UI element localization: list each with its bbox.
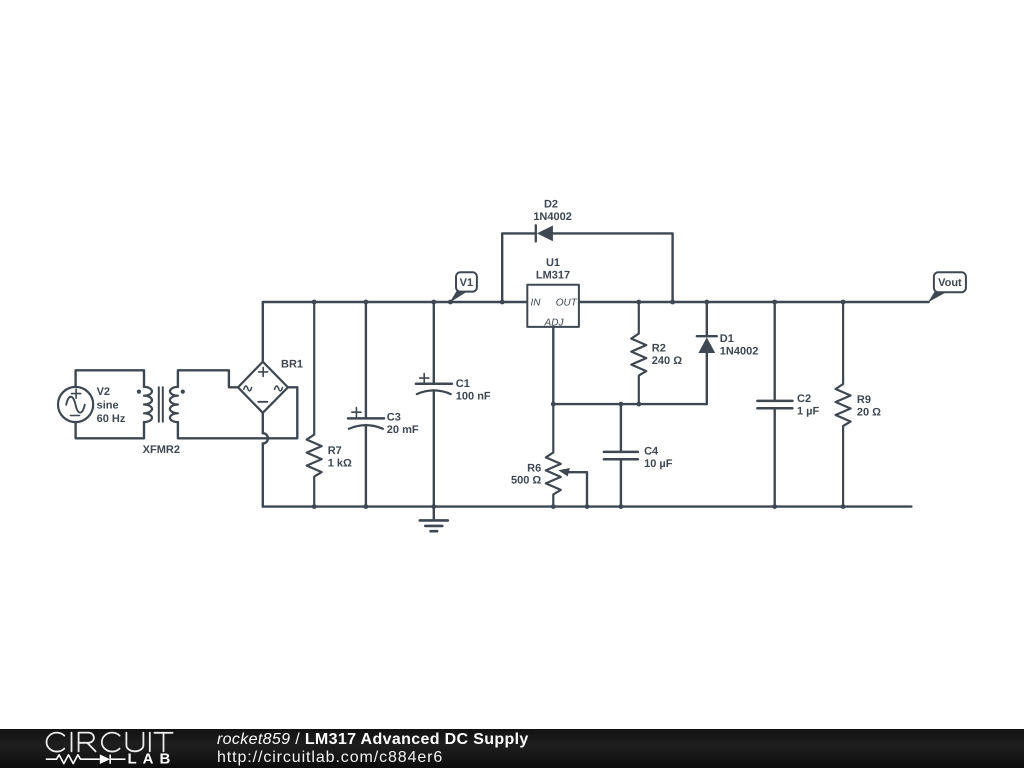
junction R9 top	[841, 300, 846, 305]
svg-text:IN: IN	[531, 298, 542, 309]
svg-text:R9: R9	[857, 394, 871, 406]
svg-text:C4: C4	[644, 446, 659, 458]
svg-text:BR1: BR1	[281, 359, 303, 371]
capacitor C3	[348, 302, 384, 507]
footer bar	[0, 729, 1024, 768]
svg-text:ADJ: ADJ	[544, 317, 565, 328]
svg-text:1N4002: 1N4002	[720, 346, 759, 358]
svg-text:LAB: LAB	[128, 751, 177, 768]
diode D2	[536, 225, 553, 241]
junction D2 right	[670, 300, 675, 305]
wire secondary bottom to BR1 right	[178, 387, 297, 438]
junction R9 bottom	[841, 504, 846, 509]
svg-text:1N4002: 1N4002	[533, 211, 572, 223]
capacitor C1	[416, 302, 452, 507]
svg-text:R6: R6	[527, 462, 541, 474]
svg-text:60 Hz: 60 Hz	[97, 413, 126, 425]
wire secondary top to BR1 left	[178, 370, 238, 387]
svg-text:100 nF: 100 nF	[456, 390, 491, 402]
svg-text:V2: V2	[97, 386, 110, 398]
footer url	[217, 749, 443, 767]
svg-text:U1: U1	[546, 257, 560, 269]
wire top rail left (BR1 top to U1 IN)	[263, 302, 528, 362]
svg-text:C3: C3	[387, 412, 401, 424]
junction C4 top	[619, 402, 624, 407]
junction ADJ node	[551, 402, 556, 407]
junction C2 top	[772, 300, 777, 305]
wire top rail right (U1 OUT to Vout)	[579, 301, 929, 303]
svg-text:10 µF: 10 µF	[644, 458, 673, 470]
diode D1	[697, 302, 717, 404]
svg-text:LM317: LM317	[536, 270, 570, 282]
resistor R2	[631, 302, 646, 404]
resistor R7	[307, 302, 322, 507]
junction R6 wiper bottom	[585, 504, 590, 509]
voltage source V2	[58, 387, 93, 422]
svg-text:XFMR2: XFMR2	[143, 444, 180, 456]
footer title	[217, 731, 529, 749]
svg-text:R2: R2	[652, 343, 666, 355]
ground	[420, 507, 448, 532]
resistor R9	[836, 302, 851, 507]
junction D1 top	[704, 300, 709, 305]
wire ADJ pin	[552, 327, 554, 404]
svg-text:R7: R7	[328, 445, 342, 457]
svg-text:20 Ω: 20 Ω	[857, 406, 881, 418]
junction R6 bottom	[551, 504, 556, 509]
svg-text:1 kΩ: 1 kΩ	[328, 457, 352, 469]
junction C1 top	[431, 300, 436, 305]
junction R7 top	[312, 300, 317, 305]
svg-text:D1: D1	[720, 333, 734, 345]
junction ground node	[431, 504, 436, 509]
transformer XFMR2	[137, 387, 185, 422]
svg-text:OUT: OUT	[556, 298, 578, 309]
wire BR1 bottom to ground rail with hop	[262, 413, 264, 433]
wire V2 bottom to primary	[76, 422, 144, 438]
junction R2 top	[636, 300, 641, 305]
svg-text:Vout: Vout	[938, 277, 962, 289]
wire bottom rail	[263, 505, 912, 507]
svg-text:1 µF: 1 µF	[797, 405, 820, 417]
bridge rectifier BR1	[238, 362, 288, 413]
capacitor C2	[757, 302, 792, 507]
svg-text:sine: sine	[97, 400, 119, 412]
junction C4 bottom	[619, 504, 624, 509]
svg-text:D2: D2	[544, 199, 558, 211]
node V1 flag	[450, 272, 477, 302]
junction C3 bottom	[364, 504, 369, 509]
junction C2 bottom	[772, 504, 777, 509]
capacitor C4	[604, 404, 638, 507]
svg-text:20 mF: 20 mF	[387, 424, 419, 436]
diode D2 loop wires	[502, 233, 536, 302]
junction C3 top	[364, 300, 369, 305]
logo squiggle resistor diode	[46, 755, 126, 764]
svg-text:240 Ω: 240 Ω	[652, 355, 682, 367]
wire ADJ horizontal line	[553, 403, 707, 405]
op-amp U1 LM317 box	[527, 285, 579, 327]
junction D2 left	[500, 300, 505, 305]
junction node V1	[448, 300, 453, 305]
logo CIRCUIT	[47, 733, 173, 752]
svg-text:V1: V1	[460, 277, 473, 289]
svg-text:C2: C2	[797, 393, 811, 405]
potentiometer R6	[546, 404, 587, 507]
wire V2 top to primary	[76, 370, 144, 387]
junction R7 bottom	[312, 504, 317, 509]
svg-text:500 Ω: 500 Ω	[511, 475, 541, 487]
junction R2 bottom	[636, 402, 641, 407]
node Vout flag	[928, 272, 966, 302]
svg-text:C1: C1	[456, 378, 470, 390]
